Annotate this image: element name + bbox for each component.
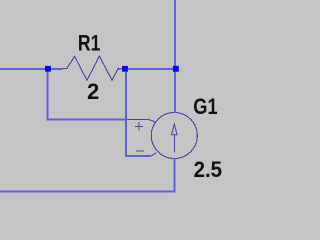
svg-text:G1: G1: [193, 94, 217, 119]
svg-text:2.5: 2.5: [194, 157, 222, 182]
wire node A down and right to G1 plus input: [48, 69, 127, 120]
node C junction square: [173, 66, 179, 72]
wire left horizontal to node A: [0, 68, 46, 70]
wire bottom horizontal and stub up to G1 circle bottom: [0, 158, 175, 191]
G1 input minus sign: [136, 150, 144, 152]
svg-text:R1: R1: [78, 31, 101, 56]
resistor R1 zigzag: [62, 56, 122, 80]
wire node B to node C: [126, 68, 174, 70]
current source G1 arrow: [173, 135, 175, 153]
node A junction square: [45, 66, 51, 72]
wire node B down left side of G1 box to minus input: [126, 69, 150, 156]
wire node A to resistor lead: [50, 68, 63, 70]
node B junction square: [122, 66, 128, 72]
wire top vertical through node C to G1 circle top: [174, 0, 176, 113]
G1 input box outline: [125, 119, 156, 156]
svg-text:2: 2: [87, 79, 99, 104]
G1 input plus sign: [135, 122, 143, 131]
current source G1 circle: [151, 113, 197, 159]
